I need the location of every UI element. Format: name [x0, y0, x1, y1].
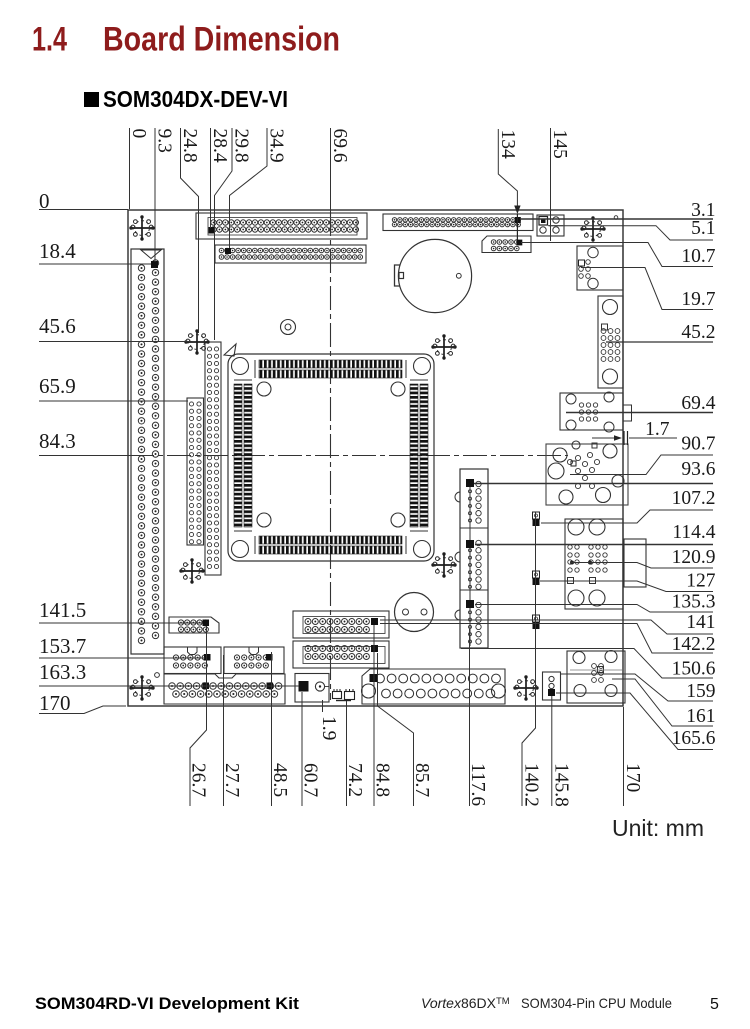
svg-text:163.3: 163.3 [39, 660, 86, 684]
svg-text:Board Dimension: Board Dimension [103, 21, 340, 59]
svg-text:117.6: 117.6 [467, 763, 488, 806]
svg-text:150.6: 150.6 [672, 659, 716, 680]
svg-text:SOM304RD-VI Development Kit: SOM304RD-VI Development Kit [35, 994, 299, 1013]
svg-text:SOM304-Pin CPU Module: SOM304-Pin CPU Module [521, 995, 672, 1011]
svg-text:28.4: 28.4 [209, 129, 230, 163]
svg-text:45.2: 45.2 [681, 322, 715, 343]
svg-text:Unit: mm: Unit: mm [612, 815, 704, 841]
svg-text:1.9: 1.9 [318, 716, 339, 740]
svg-text:26.7: 26.7 [188, 763, 209, 797]
svg-text:5.1: 5.1 [691, 218, 715, 239]
svg-text:SOM304DX-DEV-VI: SOM304DX-DEV-VI [103, 86, 288, 112]
svg-text:85.7: 85.7 [411, 763, 432, 797]
svg-text:135.3: 135.3 [672, 592, 716, 613]
svg-text:84.8: 84.8 [372, 763, 393, 797]
svg-text:170: 170 [622, 763, 643, 792]
svg-text:170: 170 [39, 691, 71, 715]
svg-text:1.7: 1.7 [645, 419, 670, 440]
svg-text:114.4: 114.4 [672, 522, 715, 543]
svg-text:141: 141 [686, 612, 715, 633]
svg-text:90.7: 90.7 [681, 434, 715, 455]
svg-text:120.9: 120.9 [672, 547, 716, 568]
svg-text:153.7: 153.7 [39, 634, 86, 658]
svg-text:134: 134 [497, 130, 518, 160]
svg-text:60.7: 60.7 [300, 763, 321, 797]
svg-text:159: 159 [686, 681, 715, 702]
svg-text:48.5: 48.5 [269, 763, 290, 797]
svg-text:93.6: 93.6 [681, 459, 715, 480]
svg-text:74.2: 74.2 [344, 763, 365, 797]
svg-text:27.7: 27.7 [221, 763, 242, 797]
svg-text:69.4: 69.4 [681, 393, 715, 414]
svg-text:24.8: 24.8 [179, 129, 200, 163]
svg-text:9.3: 9.3 [154, 129, 175, 153]
svg-text:107.2: 107.2 [672, 488, 716, 509]
svg-text:29.8: 29.8 [231, 129, 252, 163]
svg-text:1.4: 1.4 [32, 21, 67, 59]
svg-text:145.8: 145.8 [550, 763, 571, 807]
svg-text:45.6: 45.6 [39, 314, 76, 338]
svg-text:140.2: 140.2 [521, 763, 542, 807]
svg-text:141.5: 141.5 [39, 598, 86, 622]
svg-text:161: 161 [686, 706, 715, 727]
svg-text:127: 127 [686, 571, 716, 592]
svg-text:19.7: 19.7 [681, 289, 715, 310]
svg-text:0: 0 [128, 129, 149, 139]
svg-text:69.6: 69.6 [329, 129, 350, 163]
svg-text:5: 5 [710, 996, 719, 1013]
svg-text:142.2: 142.2 [672, 634, 716, 655]
svg-text:84.3: 84.3 [39, 429, 76, 453]
svg-text:34.9: 34.9 [266, 129, 287, 163]
svg-text:145: 145 [549, 130, 570, 159]
svg-text:10.7: 10.7 [681, 246, 715, 267]
svg-text:18.4: 18.4 [39, 239, 76, 263]
svg-text:165.6: 165.6 [672, 728, 716, 749]
svg-text:65.9: 65.9 [39, 374, 76, 398]
